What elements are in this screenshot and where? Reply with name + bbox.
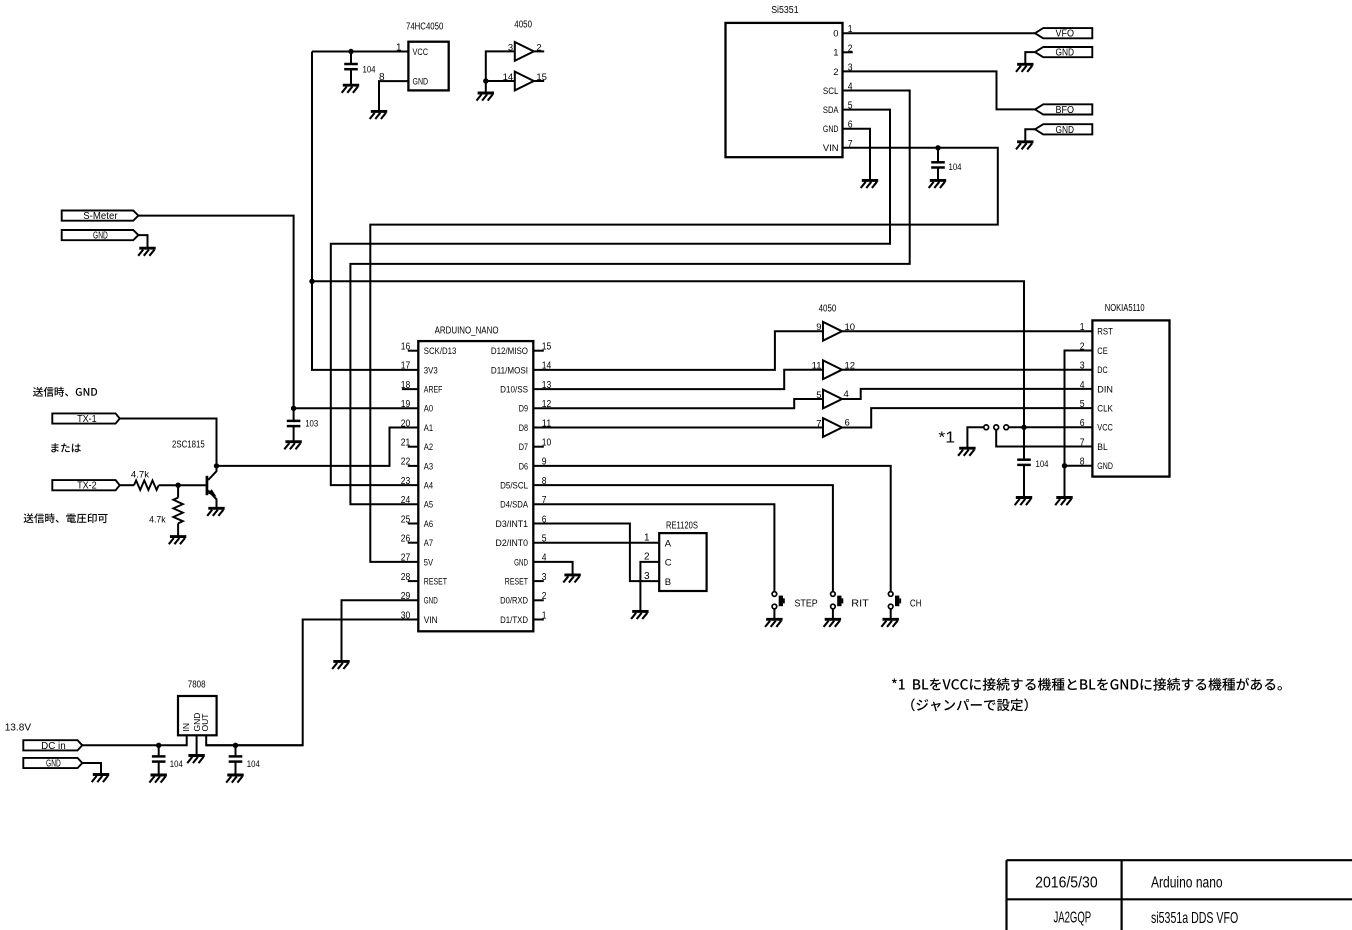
ground under CH bbox=[881, 619, 899, 627]
wire Si5351 CLK0 to VFO bbox=[843, 32, 1036, 34]
capacitor C6 104 bbox=[229, 756, 243, 761]
svg-text:*1: *1 bbox=[938, 429, 955, 446]
junction Si5351 VIN / C2 bbox=[935, 145, 940, 150]
svg-text:RESET: RESET bbox=[424, 577, 447, 588]
svg-text:D11/MOSI: D11/MOSI bbox=[491, 365, 528, 376]
Arduino pin name A3 bbox=[424, 461, 433, 472]
net flag TX-1 bbox=[52, 413, 119, 425]
Si5351 pin number 3 bbox=[848, 62, 853, 73]
jumper pads *1 bbox=[984, 425, 1009, 430]
label RIT bbox=[851, 598, 868, 609]
svg-text:si5351a DDS VFO: si5351a DDS VFO bbox=[1151, 910, 1238, 927]
value 4.7k R2 bbox=[149, 514, 166, 525]
wire buffer U2A input bbox=[486, 51, 515, 81]
svg-text:ARDUINO_NANO: ARDUINO_NANO bbox=[435, 325, 499, 336]
svg-text:2SC1815: 2SC1815 bbox=[172, 440, 205, 451]
svg-text:SDA: SDA bbox=[823, 105, 839, 116]
svg-text:VFO: VFO bbox=[1056, 29, 1075, 40]
wire Arduino VIN pin30 to 7808 OUT bbox=[206, 620, 418, 746]
Si5351 pin number 2 bbox=[848, 43, 853, 54]
Arduino pin number 6 bbox=[542, 514, 547, 525]
svg-text:D12/MISO: D12/MISO bbox=[491, 346, 528, 357]
ground under C1 bbox=[342, 85, 360, 93]
Arduino pin name D5/SCL bbox=[500, 481, 528, 492]
7808 pin label OUT bbox=[200, 714, 210, 732]
Arduino pin name A0 bbox=[424, 404, 433, 415]
label RE1120S bbox=[666, 521, 698, 532]
svg-text:VIN: VIN bbox=[823, 143, 839, 154]
wire C5 top lead bbox=[158, 745, 160, 756]
svg-text:103: 103 bbox=[305, 419, 318, 430]
Si5351 pin number 1 bbox=[848, 24, 853, 35]
svg-text:SCL: SCL bbox=[823, 86, 839, 97]
wire Si5351 SCL to A5 bbox=[350, 91, 909, 505]
switch CH bbox=[888, 592, 901, 609]
Arduino pin name D1/TXD bbox=[500, 615, 528, 626]
Arduino pin number 29 bbox=[401, 591, 411, 602]
svg-text:0: 0 bbox=[833, 29, 838, 40]
pin number 6 bbox=[845, 417, 850, 428]
label ARDUINO_NANO bbox=[435, 325, 499, 336]
NOKIA pin name VCC bbox=[1097, 423, 1113, 434]
pin number 11 bbox=[812, 361, 822, 372]
ground emitter Q1 bbox=[207, 508, 225, 516]
svg-text:B: B bbox=[665, 577, 671, 588]
svg-text:104: 104 bbox=[949, 162, 962, 173]
junction DCin / C5 bbox=[156, 743, 161, 748]
value 104 C2 bbox=[949, 162, 962, 173]
value 4.7k R1 bbox=[131, 470, 149, 481]
NOKIA pin name RST bbox=[1097, 327, 1113, 338]
ground under R2 bbox=[169, 537, 187, 545]
svg-text:GND: GND bbox=[424, 596, 438, 607]
Arduino pin number 11 bbox=[542, 418, 552, 429]
svg-text:A7: A7 bbox=[424, 538, 433, 549]
transistor Q1 emitter bbox=[208, 491, 216, 508]
note JP soushinji denatsu bbox=[24, 513, 108, 523]
pin number 15 bbox=[536, 72, 547, 83]
NOKIA pin number 8 bbox=[1080, 457, 1085, 468]
net flag GND lower bbox=[1035, 124, 1092, 136]
Arduino pin name D6 bbox=[519, 461, 528, 472]
stub Arduino pin 1 bbox=[533, 619, 544, 621]
ground Arduino pin29 bbox=[332, 661, 350, 669]
svg-text:NOKIA5110: NOKIA5110 bbox=[1105, 303, 1145, 314]
NOKIA pin number 7 bbox=[1080, 437, 1085, 448]
junction NOKIA VCC / C4 bbox=[1021, 425, 1026, 430]
Arduino pin name D9 bbox=[519, 404, 528, 415]
svg-text:C: C bbox=[665, 558, 672, 569]
svg-text:A0: A0 bbox=[424, 404, 433, 415]
stub Arduino pin 18 bbox=[402, 388, 418, 390]
Arduino pin name 3V3 bbox=[424, 365, 438, 376]
ground encoder C bbox=[631, 611, 649, 619]
NOKIA pin name CE bbox=[1097, 346, 1107, 357]
Arduino pin number 5 bbox=[542, 534, 547, 545]
wire D6 to CH switch bbox=[533, 466, 890, 592]
svg-text:4.7k: 4.7k bbox=[131, 470, 149, 481]
svg-text:104: 104 bbox=[247, 759, 260, 770]
wire buffer U2B input bbox=[486, 81, 515, 93]
Arduino pin name D3/INT1 bbox=[496, 519, 528, 530]
Arduino pin number 14 bbox=[542, 361, 552, 372]
svg-text:DC in: DC in bbox=[41, 741, 66, 752]
value 104 C4 bbox=[1036, 459, 1049, 470]
wire D8 to buffer U2F bbox=[533, 427, 823, 429]
svg-text:2016/5/30: 2016/5/30 bbox=[1035, 875, 1098, 892]
wire encoder C to ground bbox=[640, 562, 659, 611]
wire Si5351 VIN to 5V bbox=[370, 148, 998, 562]
NOKIA pin number 3 bbox=[1080, 361, 1085, 372]
title block frame bbox=[1007, 860, 1352, 930]
pin name VCC bbox=[413, 47, 429, 58]
transistor Q1 emitter arrow bbox=[208, 489, 217, 497]
switch STEP bbox=[772, 592, 785, 609]
svg-text:D3/INT1: D3/INT1 bbox=[496, 519, 528, 530]
svg-text:GND: GND bbox=[1056, 48, 1075, 59]
wire C6 top lead bbox=[235, 745, 237, 756]
wire C2 top lead bbox=[937, 148, 939, 163]
ground buffer inputs bbox=[477, 93, 495, 101]
Arduino pin name SCK/D13 bbox=[424, 346, 456, 357]
svg-text:27: 27 bbox=[401, 553, 411, 564]
ground at bottom GND flag bbox=[92, 775, 110, 783]
pin number 8 bbox=[379, 72, 385, 83]
pin number 4 bbox=[844, 389, 849, 400]
Arduino pin number 17 bbox=[401, 361, 411, 372]
note JP mataha bbox=[51, 443, 81, 452]
Arduino pin number 26 bbox=[401, 534, 411, 545]
wire CE-GND to ground bbox=[1064, 466, 1066, 497]
svg-text:CE: CE bbox=[1097, 346, 1107, 357]
svg-text:D2/INT0: D2/INT0 bbox=[496, 538, 528, 549]
junction buffer inputs bbox=[483, 78, 488, 83]
Arduino pin name RESET bbox=[505, 577, 528, 588]
svg-text:17: 17 bbox=[401, 361, 411, 372]
pin number 10 bbox=[845, 322, 856, 333]
buffer U2D 4050 bbox=[823, 360, 842, 379]
value 104 C5 bbox=[170, 759, 183, 770]
capacitor C2 104 bbox=[931, 162, 945, 167]
svg-text:4.7k: 4.7k bbox=[149, 514, 166, 525]
net flag TX-2 bbox=[52, 480, 119, 492]
ground NOKIA GND bbox=[1055, 498, 1073, 506]
svg-text:TX-1: TX-1 bbox=[77, 414, 97, 425]
Arduino pin number 10 bbox=[542, 438, 552, 449]
svg-text:VIN: VIN bbox=[424, 615, 438, 626]
svg-text:23: 23 bbox=[401, 476, 411, 487]
wire buffer U2B output stub bbox=[534, 80, 544, 82]
7808 pin label GND bbox=[192, 713, 202, 732]
encoder pin number 2 bbox=[644, 552, 650, 563]
svg-text:7808: 7808 bbox=[188, 680, 206, 691]
wire R2 top lead bbox=[177, 485, 179, 497]
buffer U2B 4050 bbox=[515, 72, 534, 91]
wire C3 bottom lead bbox=[293, 426, 295, 441]
junction CE / GND row bbox=[1062, 463, 1067, 468]
IC NOKIA5110 body bbox=[1092, 320, 1169, 476]
pin number 9 bbox=[816, 322, 821, 333]
svg-text:Arduino nano: Arduino nano bbox=[1151, 875, 1223, 892]
IC Si5351 body bbox=[726, 23, 843, 157]
svg-text:BFO: BFO bbox=[1056, 105, 1075, 116]
svg-text:BL: BL bbox=[1097, 442, 1107, 453]
wire C3 top lead bbox=[293, 408, 295, 421]
IC 74HC4050 body bbox=[408, 42, 448, 91]
ground under C4 bbox=[1015, 498, 1032, 506]
transistor Q1 2SC1815 base bar bbox=[206, 476, 209, 495]
wire jumper left to ground bbox=[967, 427, 984, 448]
svg-text:CH: CH bbox=[910, 598, 922, 609]
Arduino pin name 5V bbox=[424, 557, 434, 568]
net flag GND left bbox=[62, 230, 139, 242]
svg-text:A1: A1 bbox=[424, 423, 433, 434]
Si5351 pin name 2 bbox=[833, 67, 838, 78]
svg-text:STEP: STEP bbox=[795, 598, 818, 609]
Arduino pin name A4 bbox=[424, 481, 433, 492]
transistor Q1 collector bbox=[208, 466, 216, 480]
stub Arduino pin 3 bbox=[533, 580, 544, 582]
net flag S-Meter bbox=[62, 211, 139, 223]
Arduino pin name GND bbox=[514, 557, 528, 568]
ground Si5351 GND bbox=[861, 180, 879, 188]
svg-text:A4: A4 bbox=[424, 481, 433, 492]
wire 7808 GND pin bbox=[196, 735, 198, 755]
svg-text:A: A bbox=[665, 538, 672, 549]
wire GND flag lower to ground bbox=[1025, 129, 1035, 141]
encoder pin A bbox=[665, 538, 672, 549]
wire 74HC4050 pin8 GND bbox=[379, 81, 408, 111]
encoder pin number 1 bbox=[644, 532, 650, 543]
NOKIA pin number 1 bbox=[1080, 322, 1085, 333]
ground under C3 bbox=[284, 442, 302, 450]
stub Arduino pin 26 bbox=[408, 542, 419, 544]
pin number 5 bbox=[816, 390, 821, 401]
Arduino pin number 19 bbox=[401, 399, 411, 410]
wire S-Meter to A0 bbox=[138, 216, 418, 409]
wire C4 bottom lead bbox=[1023, 465, 1025, 497]
label NOKIA5110 bbox=[1105, 303, 1145, 314]
stub Arduino pin 16 bbox=[408, 350, 419, 352]
svg-text:5V: 5V bbox=[424, 557, 434, 568]
ground under C6 bbox=[226, 775, 244, 783]
value 104 C6 bbox=[247, 759, 260, 770]
junction base / R2 bbox=[175, 483, 180, 488]
capacitor C5 104 bbox=[152, 756, 166, 761]
net flag BFO bbox=[1035, 104, 1092, 116]
stub Arduino pin 15 bbox=[533, 350, 544, 352]
svg-text:DC: DC bbox=[1097, 365, 1107, 376]
label *1 bbox=[938, 429, 955, 446]
wire D4 to STEP switch bbox=[533, 504, 774, 591]
Arduino pin number 1 bbox=[542, 610, 547, 621]
svg-text:20: 20 bbox=[401, 418, 411, 429]
buffer U2E 4050 bbox=[823, 390, 842, 409]
pin number 12 bbox=[845, 361, 856, 372]
svg-text:D7: D7 bbox=[519, 442, 528, 453]
Si5351 pin name SDA bbox=[823, 105, 839, 116]
wire GND flag left to ground bbox=[138, 235, 147, 248]
svg-text:Si5351: Si5351 bbox=[771, 5, 799, 16]
title JA2GQP bbox=[1053, 910, 1091, 927]
Arduino pin number 27 bbox=[401, 553, 411, 564]
wire rail to NOKIA VCC bbox=[312, 281, 1024, 427]
note *1 line1 bbox=[892, 678, 1282, 691]
pin number 7 bbox=[816, 418, 821, 429]
Arduino pin number 20 bbox=[401, 418, 411, 429]
value 103 C3 bbox=[305, 419, 318, 430]
Arduino pin name D8 bbox=[519, 423, 528, 434]
wire TX-1 to collector node bbox=[120, 419, 217, 466]
svg-text:74HC4050: 74HC4050 bbox=[406, 22, 444, 33]
svg-text:A2: A2 bbox=[424, 442, 433, 453]
stub Arduino pin 21 bbox=[408, 446, 419, 448]
wire C1 bottom lead bbox=[350, 69, 352, 85]
NOKIA pin name BL bbox=[1097, 442, 1107, 453]
wire jumper middle to BL bbox=[996, 430, 1092, 447]
NOKIA pin number 2 bbox=[1080, 341, 1085, 352]
pin number 3 bbox=[508, 43, 513, 54]
ground 74HC4050 pin8 bbox=[370, 111, 388, 119]
wire R1 to base bbox=[159, 484, 206, 486]
stub Arduino pin 10 bbox=[533, 446, 544, 448]
svg-text:RIT: RIT bbox=[851, 598, 868, 609]
wire buffer U2D out to DC bbox=[842, 369, 1092, 371]
svg-text:D10/SS: D10/SS bbox=[500, 385, 528, 396]
Arduino pin number 21 bbox=[401, 438, 411, 449]
Arduino pin number 28 bbox=[401, 572, 411, 583]
Arduino pin name D12/MISO bbox=[491, 346, 528, 357]
svg-text:24: 24 bbox=[401, 495, 411, 506]
wire 3V3 rail vertical bbox=[312, 52, 418, 370]
Arduino pin number 8 bbox=[542, 476, 547, 487]
ground Arduino pin4 bbox=[563, 575, 581, 583]
stub Si5351 CLK1 bbox=[843, 51, 853, 53]
label 74HC4050 bbox=[406, 22, 444, 33]
svg-text:RST: RST bbox=[1097, 327, 1113, 338]
Arduino pin number 16 bbox=[401, 342, 411, 353]
title Arduino nano bbox=[1151, 875, 1223, 892]
value 104 C1 bbox=[363, 65, 376, 76]
svg-text:D4/SDA: D4/SDA bbox=[500, 500, 528, 511]
svg-text:CLK: CLK bbox=[1097, 404, 1113, 415]
label 13.8V bbox=[5, 721, 31, 733]
Arduino pin name D7 bbox=[519, 442, 528, 453]
capacitor C4 104 bbox=[1017, 460, 1031, 465]
title si5351a DDS VFO bbox=[1151, 910, 1238, 927]
svg-text:RE1120S: RE1120S bbox=[666, 521, 698, 532]
wire NOKIA VCC row bbox=[1009, 426, 1093, 428]
buffer U2A 4050 bbox=[515, 42, 534, 61]
wire C4 top lead bbox=[1023, 427, 1025, 459]
svg-text:AREF: AREF bbox=[424, 385, 443, 396]
wire RIT switch to ground bbox=[832, 609, 834, 619]
pin number 14 bbox=[503, 72, 514, 83]
svg-text:VCC: VCC bbox=[413, 47, 429, 58]
svg-text:IN: IN bbox=[181, 723, 191, 732]
Arduino pin name A1 bbox=[424, 423, 433, 434]
pin name GND bbox=[413, 77, 429, 88]
stub Arduino pin 22 bbox=[408, 465, 419, 467]
net flag VFO bbox=[1035, 28, 1092, 40]
ground 7808 GND bbox=[187, 756, 205, 764]
wire 7808 OUT row bbox=[206, 744, 303, 746]
Si5351 pin name 0 bbox=[833, 29, 838, 40]
Arduino pin number 23 bbox=[401, 476, 411, 487]
Arduino pin number 3 bbox=[542, 572, 547, 583]
wire DC in to 7808 IN bbox=[82, 735, 186, 745]
Si5351 pin number 6 bbox=[848, 120, 853, 131]
svg-text:104: 104 bbox=[1036, 459, 1049, 470]
Arduino pin name D10/SS bbox=[500, 385, 528, 396]
svg-text:2: 2 bbox=[833, 67, 838, 78]
svg-text:3V3: 3V3 bbox=[424, 365, 438, 376]
svg-text:104: 104 bbox=[363, 65, 376, 76]
wire D3/INT1 to encoder B bbox=[533, 524, 659, 582]
encoder pin number 3 bbox=[644, 571, 650, 582]
ground under C5 bbox=[149, 775, 167, 783]
svg-text:4050: 4050 bbox=[514, 20, 532, 31]
ground at GND flag upper bbox=[1016, 64, 1034, 72]
svg-text:5: 5 bbox=[1080, 399, 1085, 410]
Arduino pin number 9 bbox=[542, 457, 547, 468]
stub Arduino pin 28 bbox=[408, 580, 419, 582]
wire CH switch to ground bbox=[890, 609, 892, 619]
svg-text:19: 19 bbox=[401, 399, 411, 410]
7808 pin label IN bbox=[181, 723, 191, 732]
stub Arduino pin 25 bbox=[408, 523, 419, 525]
svg-text:D1/TXD: D1/TXD bbox=[500, 615, 528, 626]
Arduino pin number 2 bbox=[542, 591, 547, 602]
wire R2 to ground bbox=[177, 523, 179, 536]
svg-text:A6: A6 bbox=[424, 519, 433, 530]
wire Si5351 CLK2 to BFO bbox=[843, 71, 1036, 109]
svg-text:3: 3 bbox=[1080, 361, 1085, 372]
capacitor C3 103 bbox=[287, 421, 301, 426]
Arduino pin name RESET bbox=[424, 577, 447, 588]
Si5351 pin number 4 bbox=[848, 82, 853, 93]
svg-text:13.8V: 13.8V bbox=[5, 721, 31, 733]
resistor R1 4.7k bbox=[134, 480, 159, 490]
Si5351 pin name GND bbox=[823, 124, 839, 135]
encoder pin B bbox=[665, 577, 671, 588]
Si5351 pin number 7 bbox=[848, 139, 853, 150]
svg-text:JA2GQP: JA2GQP bbox=[1053, 910, 1091, 927]
wire GND flag bottom to ground bbox=[82, 763, 101, 774]
IC ARDUINO_NANO body bbox=[418, 341, 533, 631]
Arduino pin number 13 bbox=[542, 380, 552, 391]
wire TX-2 to R1 bbox=[120, 484, 134, 486]
wire D9 to buffer U2E bbox=[533, 399, 823, 408]
wire Si5351 GND to ground bbox=[843, 129, 871, 180]
NOKIA pin number 6 bbox=[1080, 418, 1085, 429]
IC RE1120S body bbox=[659, 533, 706, 591]
Arduino pin number 22 bbox=[401, 457, 411, 468]
title date 2016/5/30 bbox=[1035, 875, 1098, 892]
svg-text:SCK/D13: SCK/D13 bbox=[424, 346, 456, 357]
NOKIA pin number 5 bbox=[1080, 399, 1085, 410]
svg-text:GND: GND bbox=[823, 124, 839, 135]
Arduino pin number 18 bbox=[401, 380, 411, 391]
Arduino pin number 30 bbox=[401, 610, 411, 621]
svg-text:A3: A3 bbox=[424, 461, 433, 472]
wire C5 bottom lead bbox=[158, 762, 160, 775]
Arduino pin name D4/SDA bbox=[500, 500, 528, 511]
Arduino pin name GND bbox=[424, 596, 438, 607]
Arduino pin name AREF bbox=[424, 385, 443, 396]
NOKIA pin name DC bbox=[1097, 365, 1107, 376]
NOKIA pin name CLK bbox=[1097, 404, 1113, 415]
